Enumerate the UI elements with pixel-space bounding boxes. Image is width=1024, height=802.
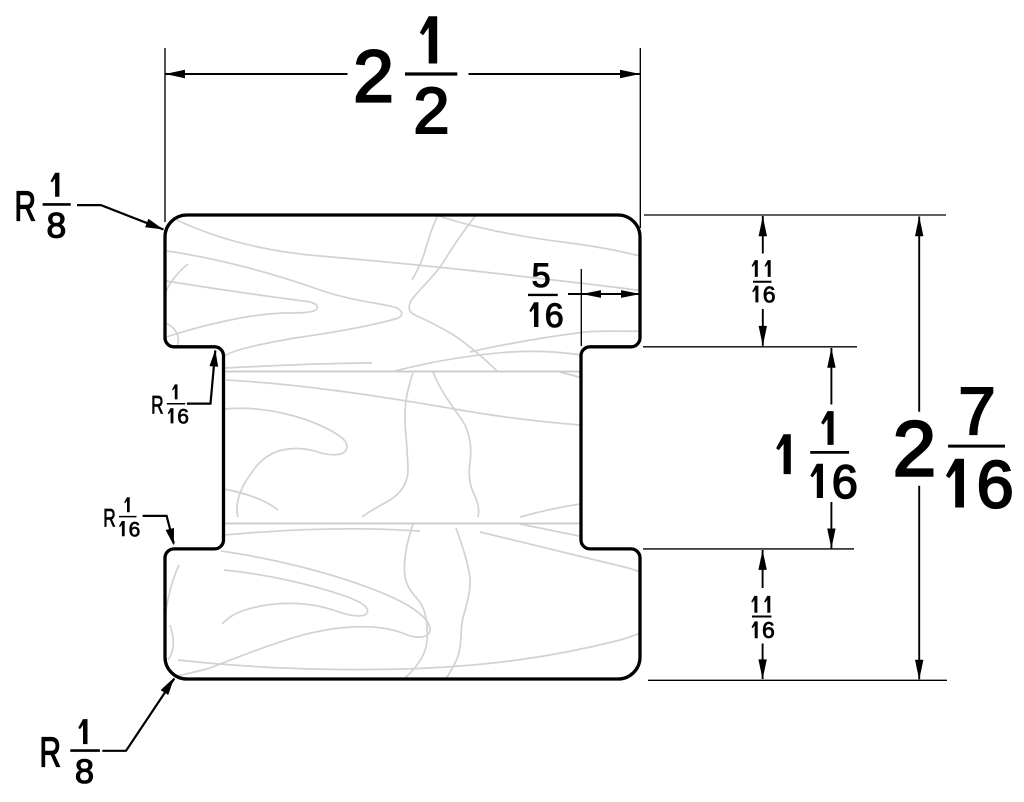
svg-text:6: 6 xyxy=(762,617,775,643)
svg-text:5: 5 xyxy=(532,257,551,295)
svg-text:6: 6 xyxy=(129,518,141,541)
svg-text:2: 2 xyxy=(413,74,449,147)
svg-text:2: 2 xyxy=(353,37,394,118)
svg-text:6: 6 xyxy=(976,448,1013,523)
svg-text:7: 7 xyxy=(958,374,995,449)
svg-text:R: R xyxy=(15,183,37,230)
svg-text:8: 8 xyxy=(47,206,67,246)
svg-text:R: R xyxy=(40,729,62,776)
svg-text:8: 8 xyxy=(75,753,94,791)
svg-text:R: R xyxy=(151,391,164,419)
svg-text:R: R xyxy=(103,505,116,533)
svg-text:6: 6 xyxy=(832,455,858,508)
svg-text:2: 2 xyxy=(893,404,936,492)
svg-text:6: 6 xyxy=(763,281,776,307)
svg-text:6: 6 xyxy=(545,297,564,335)
svg-text:6: 6 xyxy=(177,405,189,428)
